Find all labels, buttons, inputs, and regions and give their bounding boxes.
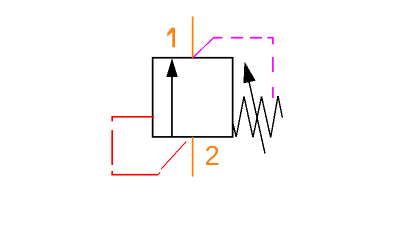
pilot line dash c bbox=[272, 57, 274, 72]
drain line vertical dash c bbox=[111, 171, 113, 176]
port 1 label bbox=[167, 28, 175, 48]
port 2 stub bbox=[192, 137, 194, 177]
drain line diagonal dash bbox=[161, 141, 186, 169]
spring bbox=[233, 96, 282, 138]
pilot line dash b bbox=[231, 37, 243, 39]
pilot line dash a bbox=[213, 37, 222, 39]
flow path arrowhead bbox=[166, 58, 177, 77]
drain line diagonal tick bbox=[157, 172, 160, 175]
drain line vertical dash b bbox=[111, 130, 113, 165]
svg-text:2: 2 bbox=[205, 140, 220, 171]
pilot line dash d bbox=[272, 87, 274, 98]
pilot line dash c bbox=[250, 37, 262, 39]
flow path arrow shaft bbox=[171, 74, 173, 137]
port 1 stub bbox=[192, 17, 194, 58]
pilot line corner dash bbox=[267, 38, 273, 45]
adjustment arrow shaft bbox=[249, 82, 265, 154]
adjustment arrowhead bbox=[243, 62, 255, 84]
drain line top horizontal bbox=[111, 116, 154, 118]
drain line vertical dash a bbox=[111, 116, 113, 121]
valve body V1 bbox=[153, 58, 233, 137]
drain line bottom horizontal bbox=[111, 174, 157, 176]
pilot line solid diagonal bbox=[193, 38, 214, 58]
